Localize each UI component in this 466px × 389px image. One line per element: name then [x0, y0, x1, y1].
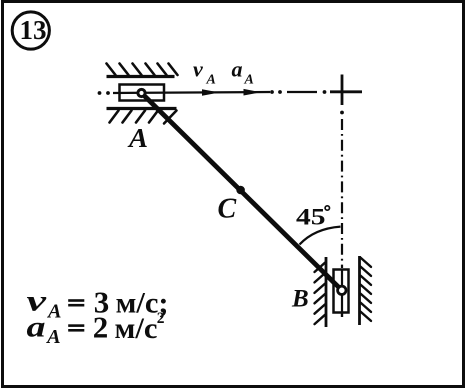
velocity arrow vA [202, 89, 220, 96]
rod AB [142, 93, 342, 290]
acceleration arrow aA [244, 89, 262, 96]
svg-text:A: A [127, 123, 148, 153]
svg-text:C: C [218, 193, 237, 224]
slider block A [120, 85, 165, 101]
hatching left of left rail [315, 263, 326, 324]
svg-text:A: A [244, 73, 254, 88]
hatching above upper rail [107, 64, 178, 76]
lower guide rail of slider A [107, 107, 177, 110]
given values text line 1 [27, 284, 169, 322]
rod end into pin B [326, 275, 342, 290]
left rail of slider B [325, 257, 328, 327]
svg-text:A: A [46, 302, 62, 323]
hatching below lower rail [110, 111, 177, 124]
right rail of slider B [358, 256, 361, 325]
hatching right of right rail [361, 258, 372, 321]
problem number badge 13 [12, 12, 49, 49]
slider block B [334, 270, 349, 313]
point C [236, 186, 245, 195]
given values text line 2 [27, 310, 165, 349]
upper guide rail of slider A [107, 75, 175, 78]
svg-text:13: 13 [20, 15, 47, 45]
svg-text:B: B [291, 286, 309, 313]
pin B [338, 286, 346, 294]
svg-text:45: 45 [296, 204, 326, 230]
horizontal centerline through A with arrows [113, 92, 270, 93]
dash-dot continuation to cross [270, 90, 362, 94]
label vA [193, 57, 216, 88]
svg-text:a: a [232, 57, 243, 82]
vertical dash-dot centerline at B [340, 75, 344, 318]
centerline inside slider B [341, 270, 343, 317]
svg-text:2: 2 [157, 310, 165, 327]
45 degree arc [300, 227, 341, 245]
svg-text:v: v [193, 57, 203, 82]
svg-text:a: a [27, 310, 46, 343]
svg-text:A: A [45, 327, 61, 348]
svg-text:м/с: м/с [115, 312, 158, 345]
horizontal dash-dot centerline left of slider A [98, 91, 110, 95]
svg-text:A: A [206, 73, 216, 88]
pin A [138, 89, 145, 96]
label aA [232, 57, 254, 88]
svg-text:2: 2 [93, 310, 109, 345]
